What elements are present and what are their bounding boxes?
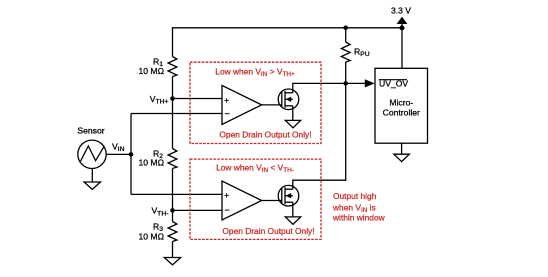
wire RPU to output node (345, 62, 347, 83)
resistor R1 (138, 56, 176, 76)
wire 3.3V node down to micro-controller top (401, 28, 403, 68)
wire sensor output VIN (106, 153, 131, 155)
resistor R2 (138, 148, 176, 168)
wire Q1 drain to output net (293, 83, 346, 92)
transistor Q1 NMOS (278, 89, 299, 110)
svg-text:3.3 V: 3.3 V (391, 6, 411, 16)
annotation dashed box comparator U2 (190, 159, 321, 239)
ground below sensor (84, 182, 100, 189)
wire top supply rail (173, 27, 403, 29)
op-amp U1 comparator (222, 85, 262, 124)
svg-text:+: + (224, 96, 229, 105)
svg-text:+: + (224, 191, 229, 200)
wire Q2 drain to output net (293, 83, 346, 189)
wire R1 to VTH+ node (172, 77, 174, 99)
wire VTH- node to R3 (172, 210, 174, 221)
op-amp U2 comparator (222, 181, 262, 220)
annotation dashed box comparator U1 (190, 62, 321, 143)
ground below micro-controller (394, 154, 409, 161)
svg-text:Output high: Output high (333, 191, 377, 201)
svg-text:Micro-: Micro- (389, 98, 413, 108)
wire VTH- to comparator U2 minus input (173, 209, 223, 211)
svg-text:Controller: Controller (383, 108, 420, 118)
wire VTH+ node to R2 (172, 99, 174, 149)
resistor RPU (341, 42, 369, 62)
resistor R3 (138, 222, 176, 242)
annotation text output high (332, 191, 386, 223)
wire Q1 source to ground (292, 106, 294, 121)
svg-text:Open Drain Output Only!: Open Drain Output Only! (222, 226, 314, 236)
ground below Q2 (285, 217, 300, 224)
svg-text:−: − (225, 205, 230, 215)
wire R3 to ground (172, 242, 174, 258)
wire U1 output to Q1 gate (262, 104, 282, 106)
svg-text:VTH-: VTH- (151, 206, 168, 218)
wire R2 to VTH- node (172, 169, 174, 211)
wire VIN to comparator U1 minus input (131, 113, 222, 115)
node VIN (112, 141, 133, 156)
wire VIN vertical branch (130, 114, 132, 195)
node top rail RPU junction (343, 26, 348, 31)
power 3.3 V (391, 6, 411, 29)
svg-text:10 MΩ: 10 MΩ (138, 158, 164, 168)
node VTH+ (150, 94, 175, 106)
node VTH- (151, 206, 174, 218)
svg-text:within window: within window (332, 213, 386, 223)
wire output node to micro-controller (346, 82, 365, 84)
wire micro-controller to ground (401, 143, 403, 154)
wire top rail to RPU (345, 28, 347, 42)
svg-text:Low when VIN < VTH-: Low when VIN < VTH- (216, 163, 294, 175)
wire VIN to comparator U2 plus input (131, 193, 222, 195)
micro-controller block (375, 68, 428, 143)
ground below Q1 (285, 120, 300, 127)
svg-text:VIN: VIN (112, 141, 125, 153)
svg-text:10 MΩ: 10 MΩ (138, 66, 164, 76)
svg-text:Open Drain Output Only!: Open Drain Output Only! (219, 130, 311, 140)
node output junction (343, 81, 348, 86)
svg-text:VTH+: VTH+ (150, 94, 169, 106)
transistor Q2 NMOS (278, 185, 299, 206)
wire left rail top segment (172, 27, 174, 56)
wire Q2 source to ground (292, 202, 294, 217)
wire U2 output to Q2 gate (262, 200, 282, 202)
svg-text:Low when VIN > VTH+: Low when VIN > VTH+ (215, 66, 295, 78)
node top rail 3.3V junction (400, 25, 405, 30)
svg-text:RPU: RPU (354, 46, 370, 58)
arrow into micro-controller UV_OV pin (365, 79, 375, 87)
wire VTH+ to comparator U1 plus input (173, 98, 223, 100)
sensor source (77, 125, 106, 168)
wire sensor to ground (91, 168, 93, 182)
ground below R3 (164, 258, 180, 265)
svg-text:−: − (225, 108, 230, 118)
svg-text:Sensor: Sensor (77, 125, 104, 135)
svg-text:10 MΩ: 10 MΩ (138, 231, 164, 241)
